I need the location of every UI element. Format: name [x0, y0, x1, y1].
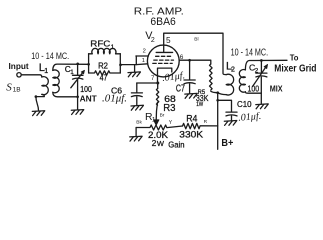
svg-text:.01μf.: .01μf. — [238, 111, 262, 124]
svg-text:330K: 330K — [179, 129, 203, 139]
svg-text:1B: 1B — [13, 86, 21, 93]
svg-text:2: 2 — [231, 67, 235, 74]
svg-text:W: W — [157, 139, 165, 148]
svg-text:C10: C10 — [237, 99, 252, 109]
svg-text:Mixer Grid: Mixer Grid — [274, 63, 316, 74]
svg-text:Bk: Bk — [136, 120, 142, 126]
svg-text:2: 2 — [255, 68, 259, 75]
svg-text:2: 2 — [143, 49, 146, 55]
svg-text:6: 6 — [180, 54, 184, 61]
svg-text:1: 1 — [111, 44, 115, 51]
svg-text:R3: R3 — [163, 103, 176, 114]
svg-text:1: 1 — [142, 58, 145, 64]
svg-text:1W: 1W — [196, 101, 203, 108]
svg-text:10 - 14 MC.: 10 - 14 MC. — [31, 51, 69, 61]
svg-text:R: R — [204, 119, 208, 125]
svg-text:6BA6: 6BA6 — [150, 16, 175, 28]
svg-text:10 - 14 MC.: 10 - 14 MC. — [231, 47, 269, 58]
svg-text:1: 1 — [152, 116, 156, 123]
svg-text:2: 2 — [151, 37, 155, 44]
svg-text:100: 100 — [248, 83, 260, 93]
svg-text:MIX: MIX — [270, 84, 283, 94]
svg-text:47: 47 — [100, 73, 108, 83]
svg-text:To: To — [290, 52, 299, 62]
svg-text:RFC: RFC — [90, 38, 110, 48]
svg-text:1: 1 — [44, 68, 48, 75]
svg-text:Gain: Gain — [168, 139, 185, 149]
svg-text:B+: B+ — [221, 137, 233, 149]
svg-text:Bl: Bl — [194, 36, 198, 42]
svg-text:Input: Input — [9, 62, 30, 71]
svg-text:.01μf.: .01μf. — [102, 94, 127, 105]
svg-text:100: 100 — [80, 84, 92, 94]
svg-text:R2: R2 — [98, 61, 108, 71]
svg-text:C7: C7 — [176, 84, 185, 95]
svg-text:R4: R4 — [186, 113, 197, 123]
svg-text:S: S — [6, 81, 12, 93]
svg-text:2: 2 — [152, 138, 157, 148]
svg-text:5: 5 — [166, 35, 171, 45]
svg-text:ANT: ANT — [80, 93, 98, 103]
svg-text:Br: Br — [160, 112, 165, 118]
